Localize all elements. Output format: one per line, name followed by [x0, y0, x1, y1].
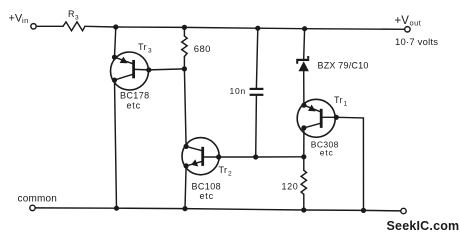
- wire node E down to Tr2 collector: [184, 69, 186, 146]
- wire node A to node B (top rail): [116, 26, 185, 28]
- wire Tr1 collector down to node G: [303, 128, 305, 157]
- svg-text:+V: +V: [395, 15, 410, 27]
- wire node A down to Tr3 emitter: [115, 27, 116, 57]
- node I junction dot: [182, 206, 187, 211]
- transistor Tr2: [182, 138, 221, 175]
- label BC178 etc: [120, 91, 150, 111]
- capacitor 10n: [250, 88, 264, 96]
- node F junction dot: [253, 154, 258, 159]
- label +Vout: [395, 15, 422, 27]
- terminal +Vin: [31, 24, 36, 29]
- wire node C to node D (top rail): [258, 27, 305, 30]
- svg-text:120: 120: [282, 181, 299, 191]
- svg-text:Tr: Tr: [334, 95, 343, 105]
- node G junction dot: [301, 154, 306, 159]
- wire capacitor down to node F: [255, 96, 258, 157]
- wire Tr3 base to node E: [149, 69, 185, 70]
- label R3: [68, 9, 79, 21]
- resistor R3: [63, 22, 85, 31]
- svg-text:SeekIC.com: SeekIC.com: [387, 219, 460, 233]
- node B junction dot: [182, 25, 187, 30]
- label Tr3: [138, 42, 152, 54]
- resistor 680: [182, 27, 187, 69]
- wire node I to node J (bottom rail): [185, 209, 304, 210]
- node A junction dot: [113, 24, 118, 29]
- wire node D to +Vout terminal: [305, 28, 405, 31]
- svg-text:10n: 10n: [230, 86, 247, 96]
- svg-text:3: 3: [75, 15, 79, 22]
- transistor Tr1: [297, 99, 339, 137]
- label BC108 etc: [192, 182, 222, 201]
- wire node F to node G: [256, 156, 304, 158]
- transistor Tr3: [111, 52, 152, 90]
- label Tr2: [219, 165, 233, 178]
- node J junction dot: [301, 207, 306, 212]
- svg-text:Tr: Tr: [219, 165, 228, 175]
- node H junction dot: [114, 206, 119, 211]
- svg-text:etc: etc: [320, 148, 334, 158]
- svg-text:BC178: BC178: [120, 91, 150, 101]
- terminal bottom right: [401, 208, 406, 213]
- zener diode BZX79/C10: [296, 56, 309, 71]
- wire node B to node C (top rail): [184, 26, 257, 29]
- label +Vin: [9, 13, 29, 25]
- wire Tr2 base to node F: [219, 156, 256, 158]
- svg-text:in: in: [22, 16, 29, 25]
- node E junction dot: [182, 66, 187, 71]
- svg-text:3: 3: [148, 48, 152, 55]
- wire R3 to node A: [85, 25, 116, 28]
- wire Tr1 base right then down to common rail: [336, 117, 363, 210]
- svg-text:out: out: [410, 18, 422, 27]
- wire Tr3 collector down to node H: [115, 80, 117, 208]
- wire common terminal to node H: [35, 207, 116, 209]
- svg-text:Tr: Tr: [138, 42, 147, 52]
- label BC308 etc: [311, 139, 339, 157]
- node C junction dot: [255, 26, 260, 31]
- terminal +Vout: [405, 27, 410, 32]
- svg-text:+V: +V: [9, 13, 23, 25]
- svg-text:1: 1: [344, 101, 348, 108]
- svg-text:BZX 79/C10: BZX 79/C10: [318, 60, 369, 70]
- wire node J to node K (bottom rail): [304, 209, 364, 211]
- node D junction dot: [302, 26, 307, 31]
- svg-text:etc: etc: [200, 191, 214, 201]
- wire node H to node I (bottom rail): [117, 207, 186, 209]
- wire zener down to Tr1 emitter: [303, 71, 305, 105]
- label Tr1: [334, 95, 348, 107]
- wire node C down to capacitor: [256, 28, 257, 88]
- wire node K to right terminal: [364, 209, 401, 212]
- svg-text:680: 680: [194, 44, 211, 55]
- svg-text:etc: etc: [127, 100, 141, 110]
- wire node D down to zener: [303, 29, 306, 59]
- wire Vin terminal to R3: [36, 25, 63, 27]
- svg-text:common: common: [18, 193, 58, 204]
- svg-text:R: R: [68, 9, 75, 19]
- svg-text:2: 2: [228, 170, 232, 177]
- svg-text:10·7 volts: 10·7 volts: [395, 37, 438, 48]
- resistor 120: [301, 157, 306, 210]
- terminal common: [30, 205, 35, 210]
- wire Tr2 emitter down to common rail: [185, 166, 186, 209]
- node K junction dot: [361, 208, 366, 213]
